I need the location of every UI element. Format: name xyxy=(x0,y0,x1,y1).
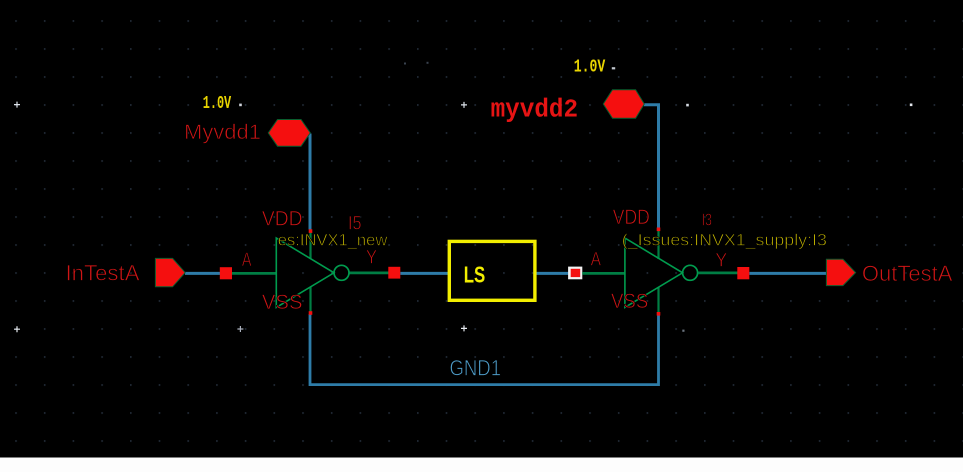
svg-text:Y: Y xyxy=(366,248,377,269)
pin name label VSS of I5 xyxy=(262,291,303,314)
pin square I3.Y xyxy=(737,267,749,279)
vdd supply symbol myvdd2 xyxy=(603,90,644,119)
pin tick I3 VDD xyxy=(657,228,661,232)
svg-text:LS: LS xyxy=(464,262,486,288)
pin name label A of I3 xyxy=(591,250,602,271)
instance name label I3 xyxy=(702,210,712,230)
pin name label A of I5 xyxy=(242,250,252,271)
svg-text:OutTestA: OutTestA xyxy=(862,261,953,286)
svg-text:Y: Y xyxy=(715,251,727,272)
wire InTestA to I5 pin A xyxy=(185,272,221,275)
pin name label VDD of I5 xyxy=(262,208,303,231)
pin InTestA xyxy=(155,258,185,286)
pin name label Y of I3 xyxy=(715,251,727,272)
svg-text:A: A xyxy=(242,250,252,271)
svg-text:I3: I3 xyxy=(702,210,712,230)
svg-text:Myvdd1: Myvdd1 xyxy=(184,120,261,144)
pin square I5.A xyxy=(220,267,232,279)
vdd supply symbol Myvdd1 xyxy=(268,120,310,147)
svg-text:1.0V: 1.0V xyxy=(574,58,606,78)
pin tick I5 VSS xyxy=(309,311,313,315)
svg-text:VSS: VSS xyxy=(262,291,303,314)
inverter I3 symbol xyxy=(582,231,738,312)
svg-text:InTestA: InTestA xyxy=(66,261,140,286)
svg-text:1.0V: 1.0V xyxy=(203,94,232,114)
svg-text:A: A xyxy=(591,250,602,271)
wire GND1 net xyxy=(310,314,659,385)
svg-text:VDD: VDD xyxy=(613,206,650,229)
value label 1.0V of myvdd2 xyxy=(574,58,606,78)
level shifter LS xyxy=(449,241,535,300)
pin tick I5 VDD xyxy=(309,229,313,233)
wire myvdd2 to I3 VDD xyxy=(644,105,659,228)
wire I3 Y to OutTestA xyxy=(749,272,827,275)
pin OutTestA xyxy=(826,259,855,285)
pin square I5.Y xyxy=(388,267,400,279)
net label Myvdd1 xyxy=(184,120,261,144)
wire LS to I3 pin A xyxy=(537,272,569,275)
pin label InTestA xyxy=(66,261,140,286)
svg-text:VSS: VSS xyxy=(611,290,648,313)
pin name label VSS of I3 xyxy=(611,290,648,313)
label GND1 xyxy=(450,356,502,381)
pin name label Y of I5 xyxy=(366,248,377,269)
value label 1.0V of Myvdd1 xyxy=(203,94,232,114)
net label myvdd2 xyxy=(491,96,578,125)
selected pin square I3.A xyxy=(568,267,582,280)
instance master label (_Issues:INVX1_supply:I3 xyxy=(622,231,827,250)
svg-text:myvdd2: myvdd2 xyxy=(491,96,578,125)
svg-text:GND1: GND1 xyxy=(450,356,502,381)
instance master label es:INVX1_new xyxy=(278,230,388,249)
pin label OutTestA xyxy=(862,261,953,286)
instance name label I5 xyxy=(348,214,362,235)
inverter I5 symbol xyxy=(232,233,389,312)
pin tick I3 VSS xyxy=(657,312,661,316)
svg-text:es:INVX1_new: es:INVX1_new xyxy=(278,230,388,249)
svg-text:(_Issues:INVX1_supply:I3: (_Issues:INVX1_supply:I3 xyxy=(622,231,827,250)
svg-text:VDD: VDD xyxy=(262,208,303,231)
wire Myvdd1 to I5 VDD xyxy=(309,134,312,230)
pin name label VDD of I3 xyxy=(613,206,650,229)
wire I5 Y to LS xyxy=(400,272,449,275)
